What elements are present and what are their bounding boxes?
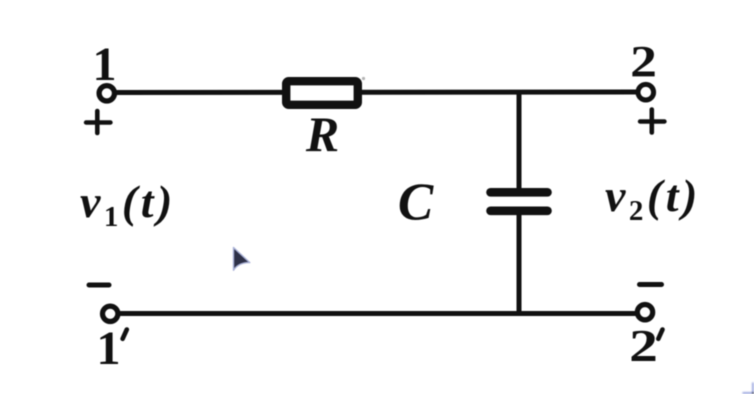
- svg-text:2: 2: [629, 321, 658, 371]
- svg-text:v1(t): v1(t): [80, 176, 176, 233]
- svg-text:C: C: [398, 174, 434, 232]
- svg-text:v2(t): v2(t): [605, 170, 701, 227]
- svg-text:2: 2: [630, 37, 657, 86]
- svg-text:1: 1: [93, 38, 117, 91]
- svg-text:R: R: [305, 106, 339, 162]
- svg-text:1: 1: [97, 322, 121, 375]
